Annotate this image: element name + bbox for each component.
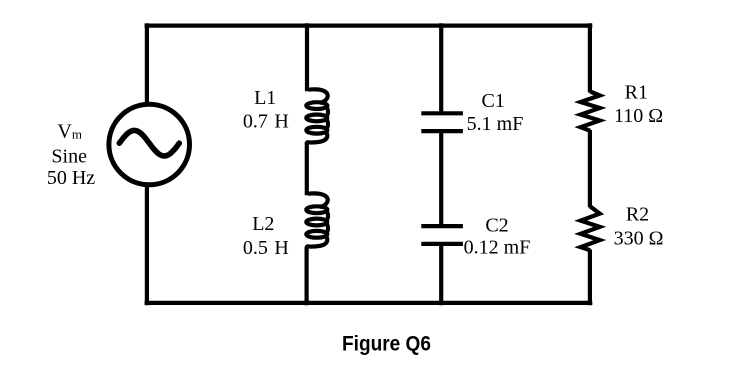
inductor L2 coil connector [325, 212, 330, 220]
wire capacitor branch middle [439, 131, 443, 226]
inductor L2 coil loop 1 [306, 206, 327, 213]
svg-text:R1: R1 [625, 82, 648, 104]
wire right vertical middle [588, 130, 592, 207]
svg-text:Figure Q6: Figure Q6 [342, 332, 431, 355]
inductor L1 coil connector [325, 108, 330, 116]
inductor L1 coil loop 2 [306, 115, 327, 122]
wire bottom horizontal [145, 301, 593, 305]
inductor L1 coil exit hook [307, 133, 328, 144]
wire right vertical top [588, 23, 592, 92]
svg-text:Sine: Sine [51, 145, 87, 167]
svg-text:L1: L1 [254, 87, 276, 109]
resistor R2 zigzag [581, 206, 600, 250]
inductor L2 coil connector [325, 224, 330, 232]
wire top horizontal [145, 24, 593, 28]
svg-text:0.7H: 0.7H [243, 110, 289, 132]
svg-text:5.1 mF: 5.1 mF [467, 113, 524, 135]
svg-text:330 Ω: 330 Ω [614, 227, 664, 249]
svg-text:50 Hz: 50 Hz [47, 167, 95, 189]
svg-text:0.5H: 0.5H [243, 237, 289, 259]
svg-text:0.12 mF: 0.12 mF [464, 237, 531, 259]
inductor L2 coil loop 3 [306, 231, 327, 238]
source V1 circle [109, 104, 190, 185]
capacitor C2 top plate [421, 224, 463, 228]
wire right vertical bottom [588, 250, 592, 306]
svg-text:110 Ω: 110 Ω [614, 105, 663, 127]
wire left vertical lower [145, 184, 149, 305]
inductor L1 coil entry hook [307, 89, 328, 103]
source V1 sine symbol [119, 130, 179, 156]
inductor L2 coil loop 2 [306, 219, 327, 226]
inductor L1 coil loop 1 [306, 102, 327, 109]
svg-text:C1: C1 [482, 90, 505, 112]
inductor L1 coil loop 3 [306, 127, 327, 134]
capacitor C1 bottom plate [421, 129, 463, 133]
capacitor C2 bottom plate [421, 242, 463, 246]
wire capacitor branch top [439, 23, 443, 113]
inductor L2 coil exit hook [307, 237, 328, 248]
svg-text:L2: L2 [252, 213, 274, 235]
wire capacitor branch bottom [439, 244, 443, 305]
capacitor C1 top plate [421, 111, 463, 115]
svg-text:Vm: Vm [57, 121, 82, 143]
wire inductor branch top [305, 23, 309, 91]
svg-text:C2: C2 [485, 214, 508, 236]
wire inductor branch bottom [305, 247, 309, 305]
inductor L1 coil connector [325, 120, 330, 128]
wire inductor branch middle [305, 143, 309, 196]
svg-text:R2: R2 [626, 203, 649, 225]
inductor L2 coil entry hook [307, 193, 328, 207]
wire left vertical upper [145, 23, 149, 105]
resistor R1 zigzag [581, 92, 600, 131]
